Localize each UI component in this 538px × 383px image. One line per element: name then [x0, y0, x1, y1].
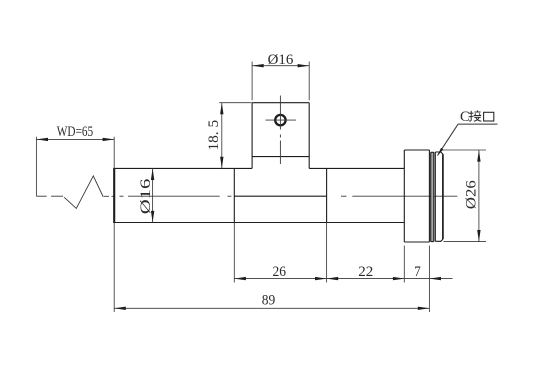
- dimension 18.5: [219, 103, 251, 169]
- wire centerline break zigzag: [64, 176, 114, 209]
- hole circle C1: [275, 115, 285, 125]
- wire flange bottom edge: [404, 241, 429, 243]
- svg-text:Ø26: Ø26: [463, 180, 479, 209]
- dimension 26: [234, 223, 326, 283]
- wire block left edge: [251, 103, 253, 169]
- svg-text:22: 22: [358, 264, 373, 280]
- ring thin washer: [431, 152, 434, 241]
- wire tube top edge left segment: [114, 167, 252, 169]
- wire tube left end face: [113, 168, 115, 223]
- svg-text:7: 7: [414, 264, 421, 280]
- dimension dia16 left: [152, 168, 154, 222]
- wire hole vertical centerline: [279, 96, 281, 165]
- dimension dia26 right: [442, 150, 486, 242]
- wire tube bottom edge: [114, 222, 404, 224]
- wire flange top edge: [404, 149, 429, 151]
- dimension 89 arrows: [114, 307, 429, 310]
- dimension dia26 arrows: [477, 150, 480, 242]
- wire centerline main dash-dot: [120, 195, 458, 197]
- dimension 7 arrow: [429, 277, 441, 280]
- dimension 22 arrows: [327, 277, 405, 280]
- svg-text:18. 5: 18. 5: [206, 120, 222, 151]
- wire flange left edge: [403, 150, 405, 242]
- wire hole horizontal centerline: [266, 119, 296, 121]
- dimension 7: [405, 246, 453, 313]
- svg-text:Ø16: Ø16: [138, 179, 154, 215]
- dimension dia16 left arrows: [151, 168, 154, 222]
- leader arrow: [437, 148, 443, 156]
- wire step edge at x234: [233, 168, 235, 222]
- node middle solid segment on axis: [234, 195, 326, 197]
- wire block right edge: [308, 103, 310, 169]
- svg-text:WD=65: WD=65: [57, 124, 93, 140]
- svg-text:89: 89: [262, 293, 276, 309]
- svg-text:26: 26: [273, 264, 287, 280]
- dimension 22: [327, 246, 405, 283]
- wire block shoulder line: [252, 156, 309, 158]
- wire flange right edge: [428, 150, 430, 242]
- dimension dia16 top: [252, 62, 309, 101]
- dimension WD=65 arrows: [36, 138, 114, 141]
- svg-text:Ø16: Ø16: [268, 52, 294, 68]
- dimension 18.5 arrows: [220, 103, 223, 169]
- wire step edge at x327: [326, 168, 328, 222]
- glyph kou (CJK): [484, 112, 494, 121]
- glyph jie (CJK): [469, 110, 482, 121]
- dimension dia16 top arrows: [252, 64, 309, 67]
- wire centerline left dashes: [36, 195, 63, 197]
- wire tube top edge right segment: [309, 167, 404, 169]
- wire block top edge: [252, 102, 309, 104]
- leader C-mount: [438, 124, 498, 155]
- svg-text:C: C: [460, 109, 470, 125]
- ring C-mount collar: [435, 152, 443, 241]
- dimension 26 arrows: [234, 277, 326, 280]
- dimension 89: [114, 223, 429, 313]
- dimension WD=65: [36, 137, 114, 197]
